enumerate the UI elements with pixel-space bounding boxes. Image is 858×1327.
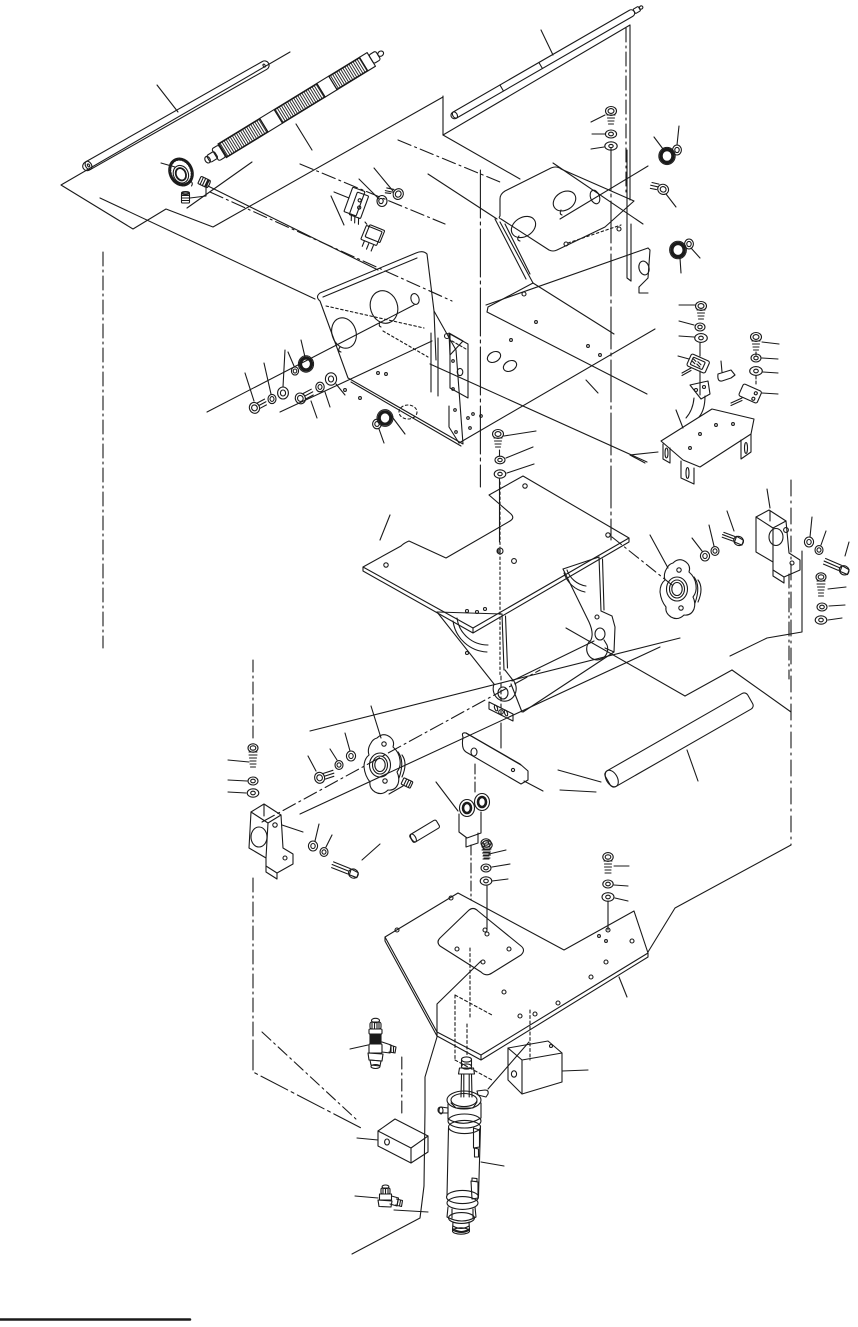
bracket OB mid foot slot [686, 468, 689, 479]
long vertical mid [479, 170, 481, 487]
frame K interior oval pair [485, 349, 502, 364]
washer P2w leader [709, 525, 714, 546]
bracket OB flange slot [745, 443, 748, 454]
plane E edge below plate [488, 1042, 529, 1089]
plane E right dash-dot vertical [790, 480, 792, 845]
washer N2 leader [506, 447, 533, 458]
gusset left wall top edge [437, 612, 502, 614]
cylinder head cap ellipse [447, 1091, 481, 1109]
screw Y0 above plate [482, 841, 492, 858]
frame J outline [318, 252, 464, 444]
R2 body [218, 53, 376, 158]
screw Z1 leader [614, 865, 629, 867]
screw O5 [751, 333, 762, 351]
block DD leader [562, 1070, 588, 1071]
block DD [508, 1041, 562, 1094]
washer Q2w [815, 546, 823, 555]
dashed vertical center [469, 948, 471, 1017]
block FF [378, 1119, 428, 1163]
vertical line Z stack [607, 901, 609, 930]
cylinder head side port left [438, 1107, 448, 1113]
washer Q1w leader [810, 517, 812, 537]
flange F2 ear hole bottom [383, 779, 387, 783]
frame K hood face [499, 167, 634, 251]
screw F1s top [606, 107, 617, 125]
flange F1 ear hole top [677, 568, 681, 572]
diagonal solid right of hood lower [553, 163, 643, 224]
switch SW1 leader [334, 192, 349, 198]
bolt Q3 long [823, 555, 851, 577]
washer GW2 [685, 239, 694, 249]
set screw F2d leader [389, 786, 403, 794]
washer M2 leader [379, 429, 384, 443]
flange F1 bore inner [672, 583, 682, 596]
frame J dotted fold [326, 306, 424, 328]
flange F2 hub ring [370, 753, 391, 777]
washer L8 [291, 367, 298, 375]
gusset left wall inner edge double [502, 614, 508, 670]
washer R2v [817, 603, 827, 611]
alignment line cluster L [207, 305, 414, 412]
cylinder rod [461, 1074, 472, 1097]
elbow V2 leader [355, 1196, 378, 1198]
washer Z2 [603, 880, 613, 888]
washer W3 leader [228, 792, 246, 793]
plane E notch edge [685, 670, 732, 696]
long plane F top edge [300, 647, 660, 814]
washer R3v leader [828, 618, 842, 620]
washer Y2 leader [492, 864, 510, 867]
washer R3v [815, 616, 827, 624]
frame J dotted fold lower [383, 331, 428, 357]
plane C lower-left short edge [443, 135, 520, 179]
bracket OB mid foot [681, 461, 694, 484]
bolt W1 leader [228, 760, 249, 762]
clamp clip O4 [718, 370, 735, 381]
frame J right flange fold [449, 333, 463, 355]
block FF hole [385, 1139, 390, 1145]
vertical link O stack [699, 343, 701, 356]
washer L2 leader [264, 363, 271, 394]
SB1 base hole [790, 561, 794, 565]
cylinder upper band 2 [449, 1120, 481, 1133]
bar Z holes [471, 748, 477, 756]
frame J oval 1 tick [339, 347, 341, 352]
gusset right lug [587, 640, 608, 660]
flange F1 bearing back rim [694, 577, 701, 603]
diagonal solid right of hood [560, 166, 648, 219]
grommet GR2 [672, 243, 684, 256]
washer O7 leader [763, 372, 778, 373]
gear axis line toward frame [208, 186, 378, 270]
clevis ring 2 [475, 794, 490, 811]
roller R4 lower [603, 691, 755, 789]
pillow block B2 dash-dot vertical [252, 878, 254, 1040]
gusset right wall left edge [563, 569, 592, 640]
frame K left tall plate [450, 334, 468, 398]
gusset left lug hole [498, 687, 508, 699]
roller R1 smooth [81, 59, 271, 172]
bolt R1v vertical [816, 573, 826, 596]
frame J small holes bottom [344, 389, 347, 392]
sensor S2 body [738, 384, 762, 404]
flange F2 ear hole top [382, 742, 386, 746]
block DD top edge [508, 1048, 562, 1094]
bolt Y1 leader [489, 850, 506, 854]
set screw S1 [198, 176, 211, 188]
washer F1w [605, 130, 616, 138]
cylinder lower band 2 [447, 1197, 478, 1210]
frame J oval hole 2 [366, 287, 402, 327]
washer L3 [278, 387, 289, 399]
SB1 small hole [784, 528, 789, 533]
screw leader [374, 168, 393, 191]
screw O1 leader [679, 304, 695, 306]
cylinder barrel clip top [474, 1128, 480, 1157]
SB1 base foot [773, 570, 784, 583]
V1 top knurled cap [370, 1022, 381, 1029]
bracket OB tab holes [695, 389, 698, 392]
diagonal dash-dot lower [300, 164, 445, 224]
vertical line Y stack to plate [486, 886, 488, 930]
washer F2a [346, 751, 355, 761]
B2 slit [263, 805, 265, 816]
valve V1 tee fitting [368, 1018, 396, 1068]
washer GW1 [673, 145, 682, 155]
bracket OB foot slot [665, 448, 668, 458]
bolt X3 leader [362, 844, 380, 860]
washer M2 [373, 419, 382, 429]
V1 body dark band [370, 1034, 381, 1044]
clamp clip O4 leader [721, 361, 722, 372]
washer L6 leader [336, 384, 345, 395]
V1 collar [369, 1029, 382, 1034]
wall left edge outer [495, 219, 526, 279]
gusset right wall top edge [563, 557, 599, 569]
clevis block [459, 812, 481, 838]
washer near SW1 [377, 196, 387, 207]
washer W2 [248, 777, 258, 785]
V2 knurled top [381, 1188, 390, 1194]
dash-dot above bolt W1 [252, 660, 254, 742]
plane G left edge lower [253, 1040, 363, 1129]
B2 base hole [283, 856, 287, 860]
washer F2a leader [345, 733, 350, 751]
grommet M1 leader [390, 414, 405, 434]
foot plate slots [494, 705, 499, 712]
bolt P3 [721, 529, 745, 548]
center vertical through frame [610, 148, 612, 540]
washer Q2w leader [821, 531, 826, 545]
gusset left lug [493, 670, 516, 701]
screw L4 leader [311, 401, 317, 418]
hidden box below plate dashed [455, 995, 530, 1080]
dash-dot plate Q to flange F1 [612, 537, 672, 585]
screw Z1 [603, 853, 613, 873]
cylinder head block [448, 1103, 481, 1123]
shaft block SB1 [756, 510, 800, 577]
gusset right flange [601, 611, 615, 652]
cylinder rod nut [459, 1068, 475, 1074]
footer rule [0, 1318, 190, 1321]
screw F1s leader [591, 115, 605, 122]
set screw S2 [182, 192, 190, 203]
clevis pin [409, 819, 440, 843]
cylinder rod tip [462, 1057, 472, 1069]
plate P2 leader [619, 977, 627, 997]
gusset left crescent slot [453, 618, 488, 652]
dash-dot vertical valve V1 [401, 1057, 403, 1117]
plane E bottom-left corner [560, 790, 596, 792]
flange F2 leader [371, 706, 381, 738]
frame J leader [331, 196, 344, 225]
washer F1w leader [592, 133, 605, 135]
washer Z2 leader [614, 885, 628, 886]
roller R2 leader [296, 124, 312, 150]
frame K right flange strip [627, 150, 631, 281]
plane E top-left edge [566, 628, 685, 696]
V2 body [380, 1194, 392, 1200]
roller R4 leader [687, 750, 698, 781]
frame K bottom-left corner [449, 406, 459, 443]
relay block RL1 [358, 224, 385, 253]
screw L1 [247, 397, 268, 415]
washer Y2 [481, 864, 491, 872]
plane G boundary continuation [424, 1110, 425, 1186]
plane G dash-dot diagonal [262, 1032, 357, 1120]
washer X2 leader [326, 835, 332, 847]
cylinder head hex [451, 1102, 477, 1108]
washer Y3 leader [492, 879, 508, 881]
bracket OB small holes [699, 433, 702, 436]
frame K right plate hole [617, 227, 621, 231]
sensor S2 rod [731, 398, 742, 403]
flange F1 hub ring [667, 577, 688, 601]
bar Z top edge [466, 733, 521, 765]
screw F2c leader [308, 756, 316, 771]
bracket OB main face [661, 409, 754, 467]
plane C top edge [443, 25, 630, 135]
gusset left small hole [466, 652, 469, 655]
washer F2b leader [330, 749, 337, 760]
washer P1w leader [692, 538, 702, 551]
sensor S1 rod [682, 368, 691, 373]
frame K hidden hole circle [564, 242, 568, 246]
washer L5 leader [325, 392, 330, 407]
block DD hole [511, 1071, 516, 1077]
frame K bottom flange edge A [430, 364, 647, 462]
gusset web bottom edge [523, 652, 614, 712]
washer Y3 [480, 877, 492, 885]
washer L3 leader [283, 350, 285, 387]
gusset left lug small hole [499, 710, 504, 715]
flange F2 back rim [398, 752, 405, 778]
frame K hood oval 2 [550, 187, 580, 215]
plate Q thickness lower edge [363, 538, 629, 633]
leader to pin area [436, 782, 458, 811]
block FF leader [357, 1138, 378, 1140]
washer L8 leader [288, 352, 294, 366]
washer O3 leader [679, 336, 694, 337]
bolt R1v leader [828, 587, 846, 589]
long shallow plane D bottom edge [310, 638, 680, 731]
cylinder upper band [448, 1114, 481, 1128]
plane B top edge behind gear [187, 162, 252, 208]
vertical link O5 stack [755, 352, 757, 356]
R2 right tip [369, 51, 381, 64]
frame K left plate dashed edge [452, 341, 466, 349]
plate P2 thickness [385, 937, 648, 1060]
dashed center above cylinder [466, 1024, 468, 1055]
frame K hood dotted hidden edge [568, 225, 621, 243]
frame K bottom small holes [510, 339, 513, 342]
SB1 leader [767, 489, 770, 508]
washer GW1 leader [677, 126, 679, 145]
R2 left tip [204, 155, 212, 164]
screw N1 [493, 430, 504, 448]
cylinder bottom collar [449, 1213, 475, 1224]
screw near SW1 [384, 183, 405, 201]
bolt X3 long [331, 859, 360, 881]
B2 foot [266, 866, 277, 879]
cylinder bottom end [453, 1228, 470, 1234]
frame K hood oval 2 tick [560, 210, 562, 215]
frame J oval 2 tick [379, 322, 381, 327]
gusset right lug hole [595, 628, 605, 640]
bolt W1 [248, 744, 258, 767]
washer O6 [751, 354, 761, 362]
B2 top face edges [251, 812, 281, 858]
plate P2 holes [395, 928, 399, 932]
gusset web top edge [512, 641, 594, 681]
washer Z3 leader [615, 898, 628, 901]
frame K hood oval 1 tick [518, 236, 520, 241]
relay dash link [365, 222, 369, 227]
frame J hidden hole dashed [399, 405, 417, 419]
B2 small hole [273, 823, 277, 827]
dashed center below plate Q [499, 482, 501, 676]
plate P2 outline [385, 893, 648, 1055]
bolt Q3 leader [845, 542, 849, 556]
plate Q holes [523, 484, 527, 488]
gusset right small hole [595, 615, 599, 619]
washer F2b [335, 761, 343, 770]
frame K left small holes [452, 360, 455, 363]
washer F2w [605, 142, 617, 150]
frame J small hole [409, 293, 420, 306]
washer X2 [320, 848, 328, 857]
dash-dot below SB1 [788, 574, 790, 679]
R2 knurl band 1 [219, 119, 268, 157]
clevis body [459, 794, 490, 848]
washer GW2 leader [691, 248, 700, 258]
plate P2 corrected outline overlay [458, 893, 648, 953]
frame J bottom thickness [351, 382, 461, 446]
gusset right crescent slot [564, 570, 586, 592]
bracket OB top tab [690, 381, 710, 399]
cylinder bottom hex lines [452, 1209, 473, 1218]
roller R1 leader [157, 85, 178, 112]
plate Q leader [380, 515, 390, 540]
washer O2 leader [679, 321, 694, 325]
bar Z leader [524, 781, 543, 791]
washer X1 [308, 841, 317, 851]
B2 bore [251, 827, 267, 847]
cylinder leader [481, 1162, 504, 1166]
washer P2w [711, 547, 719, 556]
flange bearing F2 body [364, 735, 400, 794]
B2 leader [282, 825, 303, 832]
cylinder head port stub left [439, 1107, 443, 1114]
SB1 bore [769, 529, 783, 546]
roller R3 leader [541, 30, 553, 55]
V1 bottom nut [368, 1053, 383, 1061]
SB1 slit [769, 511, 771, 521]
flange F2 bore [373, 756, 388, 774]
diagonal solid toward hood [428, 174, 497, 219]
screw L4 [293, 387, 315, 406]
frame J ridge inner line [323, 258, 417, 297]
wall far top edge [486, 248, 648, 305]
bolt Y1 [481, 839, 491, 859]
frame K left strip [431, 333, 438, 396]
valve V1 leader [350, 1045, 368, 1049]
cylinder head side port right [477, 1090, 488, 1097]
center dash-dot vertical upper [625, 28, 627, 196]
bracket OB leader [676, 410, 683, 428]
screw L1 leader [245, 373, 254, 401]
set screw F2d [401, 778, 413, 789]
SB1 top face edges [756, 517, 786, 562]
screw F2c [313, 768, 335, 785]
pillow block B2 [249, 804, 293, 873]
frame K bottom flange edge B [459, 329, 655, 443]
V1 side port [382, 1042, 391, 1053]
bracket OB neck [686, 396, 705, 418]
washer N3 leader [507, 464, 534, 473]
grommet L7 dark [301, 358, 312, 370]
grommet M1 dark [379, 412, 391, 424]
frame K hood small oval [588, 189, 601, 205]
alignment line cluster L second [280, 341, 432, 412]
plane G bottom-right corner [352, 1186, 424, 1254]
screw H1 leader [666, 194, 676, 207]
clevis stub [466, 833, 478, 847]
dash-dot clevis axis [470, 845, 472, 900]
washer W3 [247, 789, 259, 797]
plane E top-right edge [732, 670, 791, 712]
wall foot zigzag [487, 283, 533, 312]
washer F2w leader [591, 147, 604, 149]
screw O5 leader [762, 342, 779, 344]
washer O7 [750, 367, 763, 376]
mounting foot plate [489, 702, 513, 721]
wall interior steep diagonal [505, 224, 530, 274]
V2 nut [378, 1200, 392, 1207]
vertical line N stack [499, 450, 501, 456]
frame K right plate oval [637, 260, 650, 276]
washer O6 leader [762, 358, 778, 359]
flange F1 leader [650, 535, 668, 568]
washer N3 [494, 470, 506, 478]
right bracket plane polyline [730, 551, 802, 656]
gear leader [161, 163, 175, 167]
plane E lower-right edge [648, 845, 791, 952]
washer Z3 [602, 893, 614, 902]
clevis ring 1 [460, 800, 475, 817]
gear G1 [164, 154, 198, 192]
cylinder bottom hex [447, 1207, 476, 1221]
